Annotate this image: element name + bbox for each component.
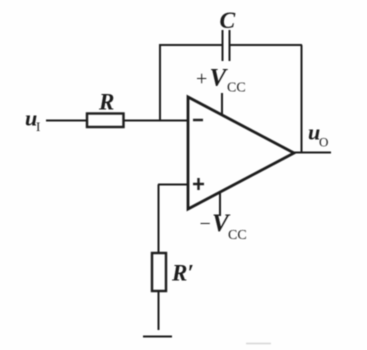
svg-text:−: − [200,213,211,235]
svg-text:O: O [319,135,328,150]
svg-text:V: V [210,65,229,92]
svg-text:+: + [196,68,207,90]
svg-text:R: R [98,90,114,115]
svg-text:R′: R′ [171,261,194,286]
svg-text:CC: CC [227,81,246,96]
svg-text:I: I [36,119,40,134]
svg-text:CC: CC [228,228,247,243]
svg-text:C: C [220,8,236,34]
